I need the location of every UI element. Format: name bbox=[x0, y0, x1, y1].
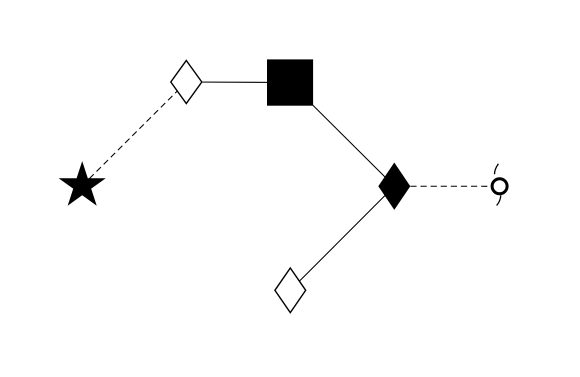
reducing-end circle bbox=[492, 179, 507, 194]
black square node bbox=[268, 60, 313, 105]
reducing-end wavy arc lower bbox=[497, 195, 501, 205]
open diamond node upper bbox=[171, 61, 202, 104]
filled star node bbox=[60, 163, 104, 205]
wire solid black diamond to lower open diamond bbox=[290, 186, 394, 290]
wire dashed black diamond to reducing-end circle bbox=[394, 185, 499, 187]
wire solid black square to black diamond bbox=[290, 83, 394, 187]
wire solid open diamond to black square bbox=[186, 81, 290, 84]
reducing-end wavy arc upper bbox=[495, 164, 499, 174]
wire dashed star to open diamond bbox=[82, 82, 186, 186]
open diamond node lower bbox=[275, 268, 306, 313]
black diamond node bbox=[379, 163, 410, 209]
